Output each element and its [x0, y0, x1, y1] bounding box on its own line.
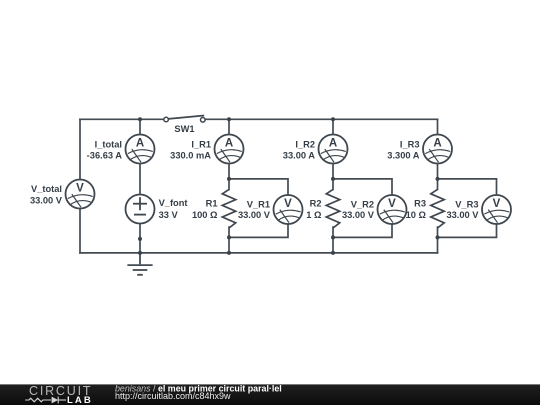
svg-text:I_R1: I_R1 [191, 140, 211, 150]
svg-text:3.300 A: 3.300 A [387, 151, 420, 161]
svg-text:V: V [76, 182, 84, 194]
svg-text:SW1: SW1 [174, 124, 194, 134]
svg-text:R3: R3 [414, 199, 426, 209]
svg-text:33.00 V: 33.00 V [30, 195, 63, 205]
svg-text:I_total: I_total [95, 140, 122, 150]
svg-text:R2: R2 [310, 199, 322, 209]
svg-text:A: A [433, 137, 441, 149]
svg-text:I_R3: I_R3 [400, 140, 420, 150]
svg-text:V_total: V_total [31, 184, 62, 194]
svg-text:V_R2: V_R2 [351, 200, 374, 210]
svg-text:V: V [388, 198, 396, 210]
svg-text:33.00 V: 33.00 V [446, 210, 479, 220]
svg-text:A: A [225, 137, 233, 149]
svg-text:http://circuitlab.com/c84hx9w: http://circuitlab.com/c84hx9w [115, 391, 231, 401]
svg-text:33.00 V: 33.00 V [238, 210, 271, 220]
svg-text:V: V [284, 198, 292, 210]
svg-text:33.00 A: 33.00 A [283, 151, 316, 161]
svg-text:V_R3: V_R3 [455, 200, 478, 210]
svg-text:-36.63 A: -36.63 A [87, 151, 123, 161]
svg-text:1 Ω: 1 Ω [306, 210, 322, 220]
svg-text:330.0 mA: 330.0 mA [170, 151, 211, 161]
svg-text:I_R2: I_R2 [295, 140, 315, 150]
svg-text:33.00 V: 33.00 V [342, 210, 375, 220]
svg-text:LAB: LAB [67, 395, 93, 405]
svg-text:V: V [493, 198, 501, 210]
svg-text:100 Ω: 100 Ω [192, 210, 218, 220]
svg-text:R1: R1 [206, 199, 218, 209]
svg-text:V_R1: V_R1 [247, 200, 270, 210]
svg-text:A: A [136, 137, 144, 149]
svg-text:V_font: V_font [159, 198, 188, 208]
svg-text:10 Ω: 10 Ω [406, 210, 427, 220]
svg-text:33 V: 33 V [159, 210, 179, 220]
svg-text:A: A [329, 137, 337, 149]
